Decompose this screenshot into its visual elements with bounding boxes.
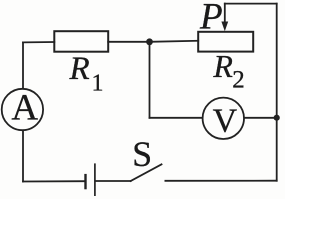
wire voltmeter to right junction (244, 117, 277, 119)
wire left vertical lower (ammeter to bottom) (22, 130, 24, 181)
svg-text:1: 1 (92, 71, 104, 97)
wire slider loop top (225, 3, 277, 5)
arrowhead of slider P (221, 22, 228, 32)
wire R1 to junction A (108, 41, 149, 43)
svg-text:R: R (69, 51, 90, 87)
wire left vertical upper (to ammeter) (22, 42, 24, 89)
junction dot A (top middle) (146, 38, 153, 45)
svg-text:S: S (132, 134, 152, 174)
wire right vertical (276, 4, 278, 181)
svg-text:R: R (212, 48, 233, 84)
svg-text:V: V (213, 102, 238, 139)
wire battery to switch pivot (96, 180, 131, 182)
wire arrow shaft of slider P (224, 4, 226, 24)
wire junction A vertical down (149, 42, 151, 118)
rheostat R2 (198, 32, 253, 52)
battery positive plate (long) (94, 163, 96, 196)
svg-text:A: A (11, 87, 38, 128)
voltmeter V1 circle (203, 98, 244, 139)
switch S lever (131, 164, 162, 181)
wire top-left horizontal (battery loop top, left of R1) (23, 41, 54, 43)
wire junction A to R2 (150, 41, 199, 42)
junction dot right (voltmeter tap) (274, 115, 280, 121)
wire switch right contact to corner (165, 180, 276, 182)
svg-text:2: 2 (232, 66, 245, 93)
ammeter A1 circle (2, 89, 43, 130)
svg-text:P: P (199, 0, 223, 38)
battery negative plate (short) (84, 174, 86, 189)
wire bottom-left horizontal (to battery) (23, 180, 85, 182)
resistor R1 (54, 31, 108, 52)
wire to voltmeter left (150, 117, 203, 119)
